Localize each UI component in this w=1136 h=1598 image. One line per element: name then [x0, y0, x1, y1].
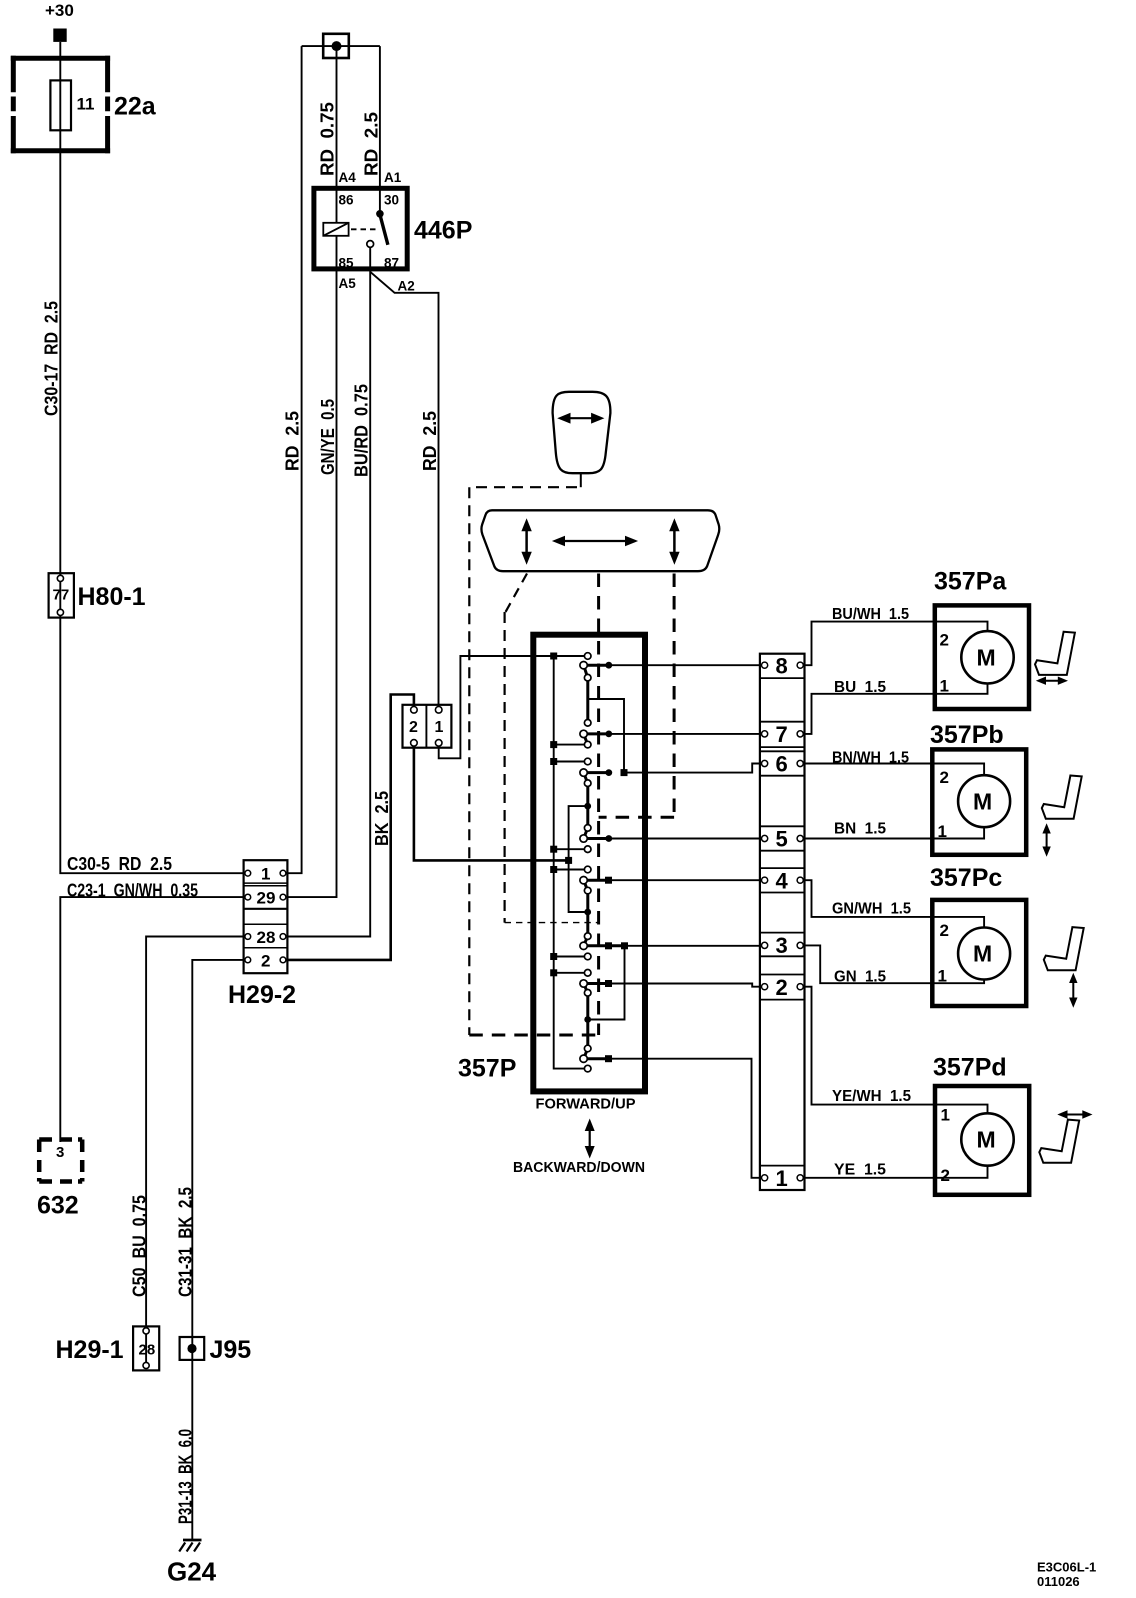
svg-text:BK 2.5: BK 2.5	[372, 791, 392, 846]
wire GN/WH 1.5: pin 4 to motor 357Pc pin 2	[803, 880, 984, 927]
wire: switch to connector pin 7	[609, 733, 762, 735]
wire BN/WH 1.5: pin 6 to motor 357Pb pin 2	[803, 764, 984, 776]
fuse box 22a (dashed border)	[11, 56, 110, 154]
connector 2|1 (357P 2-way connector)	[403, 705, 452, 748]
pin 7	[762, 731, 768, 737]
svg-text:4: 4	[776, 869, 789, 894]
svg-text:8: 8	[776, 654, 788, 679]
relay actuator dashed link	[351, 228, 378, 230]
svg-text:2: 2	[940, 631, 949, 650]
svg-text:M: M	[977, 1127, 996, 1153]
mechanical link: seat base middle to switch (dashed)	[597, 574, 600, 1036]
svg-text:1: 1	[435, 719, 444, 736]
wire BU/RD 0.75: relay 87 to H29-2 pin 28	[283, 247, 370, 936]
svg-text:RD 2.5: RD 2.5	[420, 411, 440, 471]
svg-text:28: 28	[139, 1342, 156, 1359]
motor 357Pa (seat fore/aft)	[935, 605, 1029, 709]
svg-text:C50 BU 0.75: C50 BU 0.75	[130, 1195, 150, 1297]
svg-text:C30-5 RD 2.5: C30-5 RD 2.5	[67, 854, 172, 874]
motor 357Pb (seat front height)	[932, 749, 1026, 854]
seat base arrow left (up-down)	[521, 518, 531, 564]
fuse element 11	[50, 80, 71, 130]
svg-text:GN/WH 1.5: GN/WH 1.5	[832, 901, 911, 918]
svg-text:1: 1	[938, 822, 947, 841]
svg-text:FORWARD/UP: FORWARD/UP	[536, 1097, 636, 1113]
seat base arrow middle (left-right)	[552, 536, 638, 547]
wire BU/WH 1.5: pin 8 to motor 357Pa pin 2	[803, 622, 987, 666]
H29-2 pin 28	[245, 934, 251, 940]
svg-text:BN 1.5: BN 1.5	[834, 821, 886, 838]
svg-text:A4: A4	[339, 170, 357, 185]
mechanical link: headrest to switch (dashed)	[580, 473, 582, 487]
svg-text:1: 1	[941, 1106, 950, 1125]
H29-2 pin 1	[245, 870, 251, 876]
svg-text:RD 0.75: RD 0.75	[318, 102, 338, 176]
pin 8	[762, 662, 768, 668]
svg-text:3: 3	[56, 1144, 64, 1161]
wire: switch to connector pin 2	[609, 984, 762, 987]
svg-text:A1: A1	[384, 170, 402, 185]
wire YE/WH 1.5: pin 2 to motor 357Pd pin 1	[803, 987, 987, 1114]
connector H29-1	[133, 1326, 159, 1370]
mechanical link: seat base right rocker to switch (dashed)	[673, 574, 676, 818]
svg-text:GN 1.5: GN 1.5	[834, 969, 886, 986]
wire: switch to connector pin 3	[625, 945, 762, 947]
wire BK 2.5: H29-2 pin 2 to connector pin 2 of 357P 2-way	[283, 695, 414, 960]
wire: switch to connector pin 8	[609, 664, 762, 666]
svg-text:6: 6	[776, 752, 788, 777]
relay contact 87	[367, 241, 374, 248]
pivot output stubs	[584, 665, 625, 1058]
svg-text:BN/WH 1.5: BN/WH 1.5	[832, 750, 909, 767]
svg-text:P31-13 BK 6.0: P31-13 BK 6.0	[176, 1429, 196, 1524]
switch arms	[584, 665, 588, 678]
svg-text:28: 28	[257, 928, 276, 947]
wire BK: connector pin 2 bottom to switch 357P common	[414, 746, 569, 860]
wire C50 BU 0.75: H29-2 pin 28 to H29-1	[146, 937, 245, 1369]
svg-text:G24: G24	[167, 1557, 217, 1587]
riser: bar D to wire 3	[588, 946, 625, 1020]
wire GN 1.5: pin 3 to motor 357Pc pin 1	[803, 945, 984, 983]
pin 5	[762, 835, 768, 841]
motor 357Pd (backrest recline)	[935, 1086, 1029, 1195]
connector strip 8..1	[760, 654, 805, 1192]
svg-text:2: 2	[776, 975, 788, 1000]
wire C23-1 GN/WH 0.35: H29-2 pin 29 to connector 632	[60, 897, 245, 1142]
svg-text:2: 2	[940, 768, 949, 787]
svg-text:1: 1	[940, 677, 949, 696]
wire: switch to connector pin 4	[609, 879, 762, 881]
wire YE 1.5: pin 1 to motor 357Pd pin 2	[803, 1166, 987, 1178]
svg-text:357Pd: 357Pd	[933, 1054, 1007, 1082]
svg-text:29: 29	[257, 889, 276, 908]
relay 446P	[314, 170, 415, 294]
svg-text:RD 2.5: RD 2.5	[283, 411, 303, 471]
pin 6	[762, 760, 768, 766]
svg-text:11: 11	[77, 95, 95, 114]
wire: switch to connector pin 6	[624, 764, 762, 773]
svg-text:+30: +30	[45, 1, 74, 20]
svg-text:H80-1: H80-1	[78, 583, 146, 611]
svg-text:YE/WH 1.5: YE/WH 1.5	[832, 1088, 911, 1105]
pin 1	[435, 707, 442, 714]
svg-text:M: M	[977, 645, 996, 671]
svg-text:30: 30	[384, 193, 399, 208]
pin 4	[762, 877, 768, 883]
motor 357Pc (seat rear height)	[932, 900, 1026, 1006]
svg-text:357Pb: 357Pb	[930, 721, 1004, 749]
connector H80-1	[49, 573, 74, 617]
seat icon 357Pb	[1042, 776, 1082, 819]
svg-text:C23-1 GN/WH 0.35: C23-1 GN/WH 0.35	[67, 881, 198, 901]
wire GN/YE 0.5: relay 85/A5 to H29-2 pin 29	[283, 236, 336, 897]
svg-text:RD 2.5: RD 2.5	[362, 112, 382, 176]
seat icon 357Pd	[1039, 1120, 1079, 1163]
svg-text:H29-2: H29-2	[228, 981, 296, 1009]
node +30 battery supply	[45, 1, 74, 42]
mechanical link: seat base left rocker to switch (dashed)	[506, 574, 528, 613]
wire BU 1.5: pin 7 to motor 357Pa pin 1	[803, 683, 987, 734]
svg-text:BACKWARD/DOWN: BACKWARD/DOWN	[513, 1160, 645, 1176]
H29-2 pin 29	[245, 894, 251, 900]
rail junctions	[550, 653, 557, 977]
svg-text:E3C06L-1: E3C06L-1	[1037, 1560, 1096, 1575]
svg-text:85: 85	[339, 256, 355, 271]
svg-text:1: 1	[938, 967, 947, 986]
switch bars (linked contacts)	[586, 679, 589, 722]
svg-text:2: 2	[409, 719, 418, 736]
svg-text:632: 632	[37, 1192, 79, 1220]
svg-text:GN/YE 0.5: GN/YE 0.5	[318, 399, 338, 475]
svg-text:3: 3	[776, 933, 788, 958]
wire RD: connector pin 1 bottom to switch 357P supply rail	[439, 656, 554, 758]
svg-text:BU 1.5: BU 1.5	[834, 679, 886, 696]
svg-text:2: 2	[941, 1166, 950, 1185]
svg-text:22a: 22a	[114, 93, 157, 121]
switch assembly 357P box	[533, 635, 645, 1092]
rail taps to fixed contacts	[554, 656, 585, 973]
svg-text:357Pc: 357Pc	[930, 864, 1002, 892]
seat base arrow right (up-down)	[669, 518, 679, 564]
ground G24	[179, 1540, 201, 1552]
connector 632 (dashed box)	[39, 1140, 82, 1182]
wire C31-31 BK 2.5: H29-2 pin 2 through splice J95 to ground G24	[192, 960, 245, 1540]
svg-text:77: 77	[53, 587, 70, 604]
wire BN 1.5: pin 5 to motor 357Pb pin 1	[803, 827, 984, 838]
svg-text:C31-31 BK 2.5: C31-31 BK 2.5	[176, 1187, 196, 1297]
switch pivot circles	[580, 662, 587, 1063]
wire: switch to connector pin 1	[609, 1059, 762, 1178]
wire C30-17 RD 2.5: +30 through fuse 22a down to H80-1 and H29-2 pin 1	[60, 42, 245, 873]
pictogram: headrest knob	[553, 392, 611, 473]
svg-text:C30-17 RD 2.5: C30-17 RD 2.5	[42, 301, 62, 416]
svg-text:A5: A5	[339, 276, 357, 291]
arrow forward/backward	[585, 1119, 595, 1159]
junction node: battery feed splice above relay	[302, 34, 380, 58]
pin 2	[411, 707, 418, 714]
pin 2	[762, 984, 768, 990]
wire RD 2.5: junction to relay pin 30/A1	[379, 46, 381, 214]
H29-2 pin 2	[245, 957, 251, 963]
svg-text:5: 5	[776, 827, 788, 852]
wire RD 2.5: relay 87/A2 to connector pin 1 of 357P 2-way	[370, 272, 438, 707]
seat icon 357Pa	[1035, 632, 1075, 675]
wire RD 2.5: junction to H29-2 pin 1	[283, 46, 301, 873]
svg-text:BU/RD 0.75: BU/RD 0.75	[352, 384, 372, 477]
svg-text:446P: 446P	[414, 217, 472, 245]
357P ground link riser	[569, 806, 588, 912]
svg-text:87: 87	[384, 256, 399, 271]
connector H29-2	[244, 860, 288, 973]
switch contact circles	[584, 653, 591, 1072]
svg-text:BU/WH 1.5: BU/WH 1.5	[832, 606, 909, 623]
pictogram: seat base control	[481, 510, 719, 571]
svg-text:1: 1	[261, 865, 270, 884]
junction: ground entry	[565, 857, 572, 864]
splice J95	[180, 1337, 205, 1360]
svg-text:M: M	[973, 941, 992, 967]
svg-text:A2: A2	[398, 279, 415, 294]
svg-text:H29-1: H29-1	[56, 1336, 124, 1364]
svg-text:7: 7	[776, 722, 788, 747]
svg-text:M: M	[973, 789, 992, 815]
svg-text:2: 2	[940, 921, 949, 940]
riser: bar A to wire 6	[588, 699, 624, 773]
svg-text:1: 1	[776, 1166, 788, 1191]
svg-text:2: 2	[261, 952, 270, 971]
wire RD 0.75: junction to relay pin 86/A4	[336, 46, 338, 223]
svg-text:357Pa: 357Pa	[934, 568, 1007, 596]
seat icon 357Pc	[1044, 927, 1084, 970]
svg-text:011026: 011026	[1037, 1574, 1080, 1589]
relay coil	[323, 223, 348, 236]
svg-text:86: 86	[339, 193, 355, 208]
pin 1	[762, 1175, 768, 1181]
headrest arrow (left-right)	[557, 413, 604, 424]
svg-text:J95: J95	[210, 1336, 252, 1364]
pin 3	[762, 942, 768, 948]
junction dots on output wires	[584, 662, 628, 1062]
svg-text:357P: 357P	[458, 1055, 516, 1083]
svg-text:YE 1.5: YE 1.5	[834, 1161, 886, 1178]
wire: switch to connector pin 5	[609, 838, 762, 840]
relay switch arm common 30	[376, 210, 384, 218]
357P internal supply rail	[554, 656, 585, 1069]
